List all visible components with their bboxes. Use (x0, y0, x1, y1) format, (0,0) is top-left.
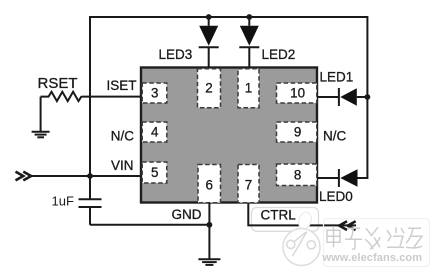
wire: top supply rail (90, 16, 367, 18)
svg-text:8: 8 (294, 168, 301, 183)
label LED3 (159, 47, 193, 62)
node: LED1 anode junction (365, 94, 371, 100)
label LED0 (319, 189, 353, 204)
input chevrons VIN (16, 172, 32, 181)
label GND (172, 207, 202, 222)
svg-text:6: 6 (205, 177, 212, 192)
svg-text:www.elecfans.com: www.elecfans.com (322, 252, 423, 264)
svg-text:LED1: LED1 (320, 69, 354, 84)
label 1uF (52, 194, 74, 209)
node: LED3 anode junction (206, 14, 212, 20)
svg-text:1: 1 (245, 81, 252, 96)
svg-text:ISET: ISET (106, 78, 136, 93)
svg-text:2: 2 (205, 81, 212, 96)
watermark url text (322, 252, 423, 264)
input chevrons CTRL (339, 221, 355, 230)
node: VIN junction (87, 173, 93, 179)
capacitor C1 1uF (79, 176, 102, 225)
label N/C (right) (323, 129, 347, 144)
wire: pin6 to ground (208, 203, 210, 259)
pin 10 (277, 83, 317, 103)
pin 4 (142, 122, 167, 142)
svg-text:GND: GND (172, 207, 202, 222)
svg-text:10: 10 (290, 86, 305, 101)
wire: pin8 to LED0 (317, 177, 338, 179)
pin 6 (198, 165, 221, 203)
pin 1 (238, 69, 259, 108)
wire: VIN input to pin5 (31, 175, 141, 177)
node: GND junction (207, 222, 213, 228)
pin 7 (238, 165, 259, 203)
watermark chinese text 电子发烧友 (327, 226, 422, 249)
svg-text:CTRL: CTRL (261, 208, 297, 223)
svg-text:N/C: N/C (323, 129, 347, 144)
pin 8 (277, 164, 317, 186)
pin 3 (142, 83, 167, 103)
resistor RSET (41, 92, 82, 101)
LED D1 (339, 88, 367, 106)
wire: pin7 CTRL input (248, 203, 356, 226)
watermark frame (324, 219, 430, 267)
wire: right supply rail down to LED0 (358, 16, 368, 178)
label RSET (38, 75, 78, 92)
label CTRL (261, 208, 297, 223)
wire: ISET to pin3 (82, 96, 142, 98)
svg-text:1uF: 1uF (52, 194, 74, 209)
LED D3 (199, 17, 219, 67)
svg-text:VIN: VIN (111, 158, 134, 173)
label LED2 (262, 47, 296, 62)
svg-text:7: 7 (245, 177, 252, 192)
svg-text:N/C: N/C (111, 129, 135, 144)
pin 2 (198, 69, 221, 108)
svg-text:4: 4 (151, 125, 159, 140)
label N/C (left) (111, 129, 135, 144)
watermark panel behind CTRL (252, 208, 319, 232)
svg-text:LED2: LED2 (262, 47, 296, 62)
label ISET (106, 78, 136, 93)
svg-text:3: 3 (151, 86, 158, 101)
node: LED2 anode junction (246, 14, 252, 20)
svg-text:5: 5 (151, 165, 158, 180)
IC U1 body (141, 68, 317, 203)
svg-text:9: 9 (294, 125, 301, 140)
svg-text:LED3: LED3 (159, 47, 193, 62)
watermark logo circle (283, 211, 320, 266)
wire: pin10 to LED1 (317, 96, 338, 98)
pin 5 (142, 162, 167, 183)
ground (GND pin) (198, 259, 220, 265)
LED D2 (239, 17, 259, 67)
svg-text:RSET: RSET (38, 75, 78, 92)
ground (RSET) (32, 132, 50, 138)
label VIN (111, 158, 134, 173)
label LED1 (320, 69, 354, 84)
svg-text:LED0: LED0 (319, 189, 353, 204)
pin 9 (277, 122, 317, 142)
LED D0 (339, 169, 358, 187)
wire: left VIN riser (89, 16, 91, 176)
wire: capacitor to GND net (90, 224, 209, 226)
wire: RSET to ground (40, 97, 42, 132)
